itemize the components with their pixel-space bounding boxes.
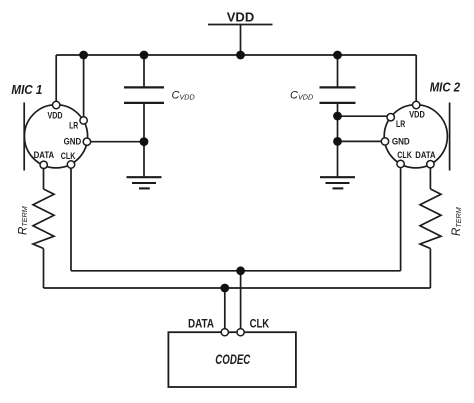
pin MIC1 DATA	[40, 161, 47, 168]
wire left resistor to DATA trunk	[43, 249, 45, 289]
pin MIC2 LR	[387, 114, 394, 121]
wire CLK trunk	[71, 270, 401, 272]
resistor R_TERM left	[33, 189, 54, 249]
node left cap/GND1	[140, 137, 149, 146]
node CLK trunk/codec	[236, 266, 245, 275]
pin MIC1 VDD	[53, 101, 60, 108]
svg-text:CLK: CLK	[397, 150, 412, 160]
VDD supply bar	[208, 24, 273, 26]
wire left capacitor top	[143, 55, 145, 87]
node rail/left cap	[140, 51, 149, 60]
wire MIC2 GND to cap	[338, 140, 386, 142]
pin MIC2 VDD	[413, 101, 420, 108]
node DATA trunk/codec	[220, 284, 229, 293]
wire MIC1 CLK down	[70, 165, 72, 271]
svg-text:CLK: CLK	[250, 317, 270, 331]
wire riser MIC1 LR	[83, 55, 85, 120]
svg-text:RTERM: RTERM	[17, 206, 29, 235]
pin MIC1 GND	[83, 138, 90, 145]
svg-text:VDD: VDD	[227, 10, 254, 25]
MIC2 pins	[381, 101, 434, 168]
svg-text:CLK: CLK	[61, 151, 76, 161]
pin MIC2 CLK	[397, 160, 404, 167]
svg-text:LR: LR	[396, 119, 406, 129]
codec U1 box	[168, 332, 296, 387]
pin MIC2 GND	[381, 138, 388, 145]
MIC1 pins	[40, 101, 91, 168]
svg-text:MIC 2: MIC 2	[430, 80, 460, 94]
svg-text:DATA: DATA	[415, 150, 436, 160]
svg-text:VDD: VDD	[48, 110, 63, 120]
wire MIC2 DATA down to resistor	[429, 164, 431, 189]
wire left capacitor bottom to ground	[143, 103, 145, 177]
capacitor C_VDD left	[124, 87, 164, 103]
microphone MIC1 body	[24, 103, 87, 171]
wire right capacitor bottom to ground	[337, 103, 339, 177]
svg-text:GND: GND	[392, 137, 410, 147]
MIC2 port line	[449, 103, 451, 171]
svg-text:GND: GND	[64, 137, 82, 147]
node right cap/GND2	[333, 137, 342, 146]
microphone MIC2 body	[384, 103, 449, 171]
wire riser MIC2 VDD	[415, 55, 417, 105]
wire DATA trunk	[44, 287, 431, 289]
svg-text:CODEC: CODEC	[215, 351, 251, 367]
wire right resistor to DATA trunk	[429, 249, 431, 289]
pin codec DATA	[221, 329, 228, 336]
pin MIC2 DATA	[427, 161, 434, 168]
svg-text:DATA: DATA	[188, 317, 214, 331]
svg-text:RTERM: RTERM	[451, 207, 463, 236]
wire MIC1 DATA down to resistor	[43, 165, 45, 189]
pin MIC1 CLK	[67, 161, 74, 168]
MIC1 port line	[23, 103, 25, 171]
wire DATA trunk to codec	[224, 288, 226, 332]
svg-text:VDD: VDD	[409, 109, 425, 119]
node rail/VDD	[236, 51, 245, 60]
ground left	[127, 177, 162, 188]
wire MIC2 LR to cap	[338, 115, 391, 117]
svg-text:CVDD: CVDD	[290, 90, 313, 102]
wire CLK trunk to codec	[240, 271, 242, 332]
svg-text:CVDD: CVDD	[172, 90, 195, 102]
node rail/LR1	[79, 51, 88, 60]
wire MIC1 GND to cap	[87, 141, 144, 143]
ground right	[320, 177, 355, 188]
wire riser MIC1 VDD	[55, 55, 57, 105]
wire VDD bar to rail	[240, 25, 242, 56]
resistor R_TERM right	[420, 189, 441, 249]
svg-text:LR: LR	[69, 120, 79, 130]
node rail/right cap	[333, 51, 342, 60]
wire top rail	[56, 54, 416, 56]
pin codec CLK	[237, 329, 244, 336]
capacitor C_VDD right	[320, 87, 356, 103]
node right cap/LR2	[333, 112, 342, 121]
wire right capacitor top	[337, 55, 339, 87]
wire MIC2 CLK down	[400, 164, 402, 271]
svg-text:MIC 1: MIC 1	[11, 82, 42, 97]
pin MIC1 LR	[80, 117, 87, 124]
svg-text:DATA: DATA	[34, 150, 55, 160]
